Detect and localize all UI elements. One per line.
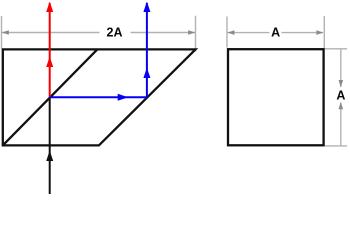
dimension arrowhead pointing up (right A) [339, 102, 344, 110]
dimension line top A right segment [282, 32, 324, 34]
extension line right of top A dimension [323, 16, 325, 49]
dimension line 2A left segment [2, 32, 100, 34]
input beam (black) wire [49, 97, 51, 194]
vertical dimension line A upper segment [340, 49, 342, 87]
extension line from square top-right corner [325, 48, 347, 50]
dimension line 2A right segment [131, 32, 196, 34]
dimension line top A left segment [228, 32, 270, 34]
svg-text:A: A [336, 89, 345, 103]
internal 45-degree diagonal surface [3, 49, 98, 145]
dimension arrowhead right (2A) [188, 30, 195, 35]
extension line from square bottom-right corner [325, 145, 347, 147]
extension line right of 2A dimension [195, 16, 197, 52]
red beam top arrowhead [46, 2, 53, 13]
input beam arrowhead [46, 151, 53, 162]
blue beam horizontal wire [50, 96, 147, 98]
vertical dimension line A lower segment [340, 103, 342, 147]
rhomboid prism outline (side view) [3, 49, 196, 145]
dimension arrowhead left (top A) [227, 30, 234, 35]
svg-text:2A: 2A [107, 25, 123, 39]
blue beam vertical wire [146, 3, 148, 97]
dimension arrowhead pointing down (right A) [339, 80, 344, 88]
svg-text:A: A [271, 25, 280, 39]
blue beam top arrowhead [143, 2, 150, 13]
dimension arrowhead right (top A) [316, 30, 323, 35]
dimension arrowhead left (2A) [2, 30, 9, 35]
extension line left of 2A dimension [1, 16, 3, 49]
blue beam inner arrowhead [143, 68, 150, 79]
square prism face (end view) [228, 49, 324, 145]
blue beam horizontal arrowhead [118, 94, 129, 101]
extension line left of top A dimension [226, 17, 228, 48]
red beam inner arrowhead [46, 57, 53, 68]
red output beam wire [49, 3, 51, 97]
